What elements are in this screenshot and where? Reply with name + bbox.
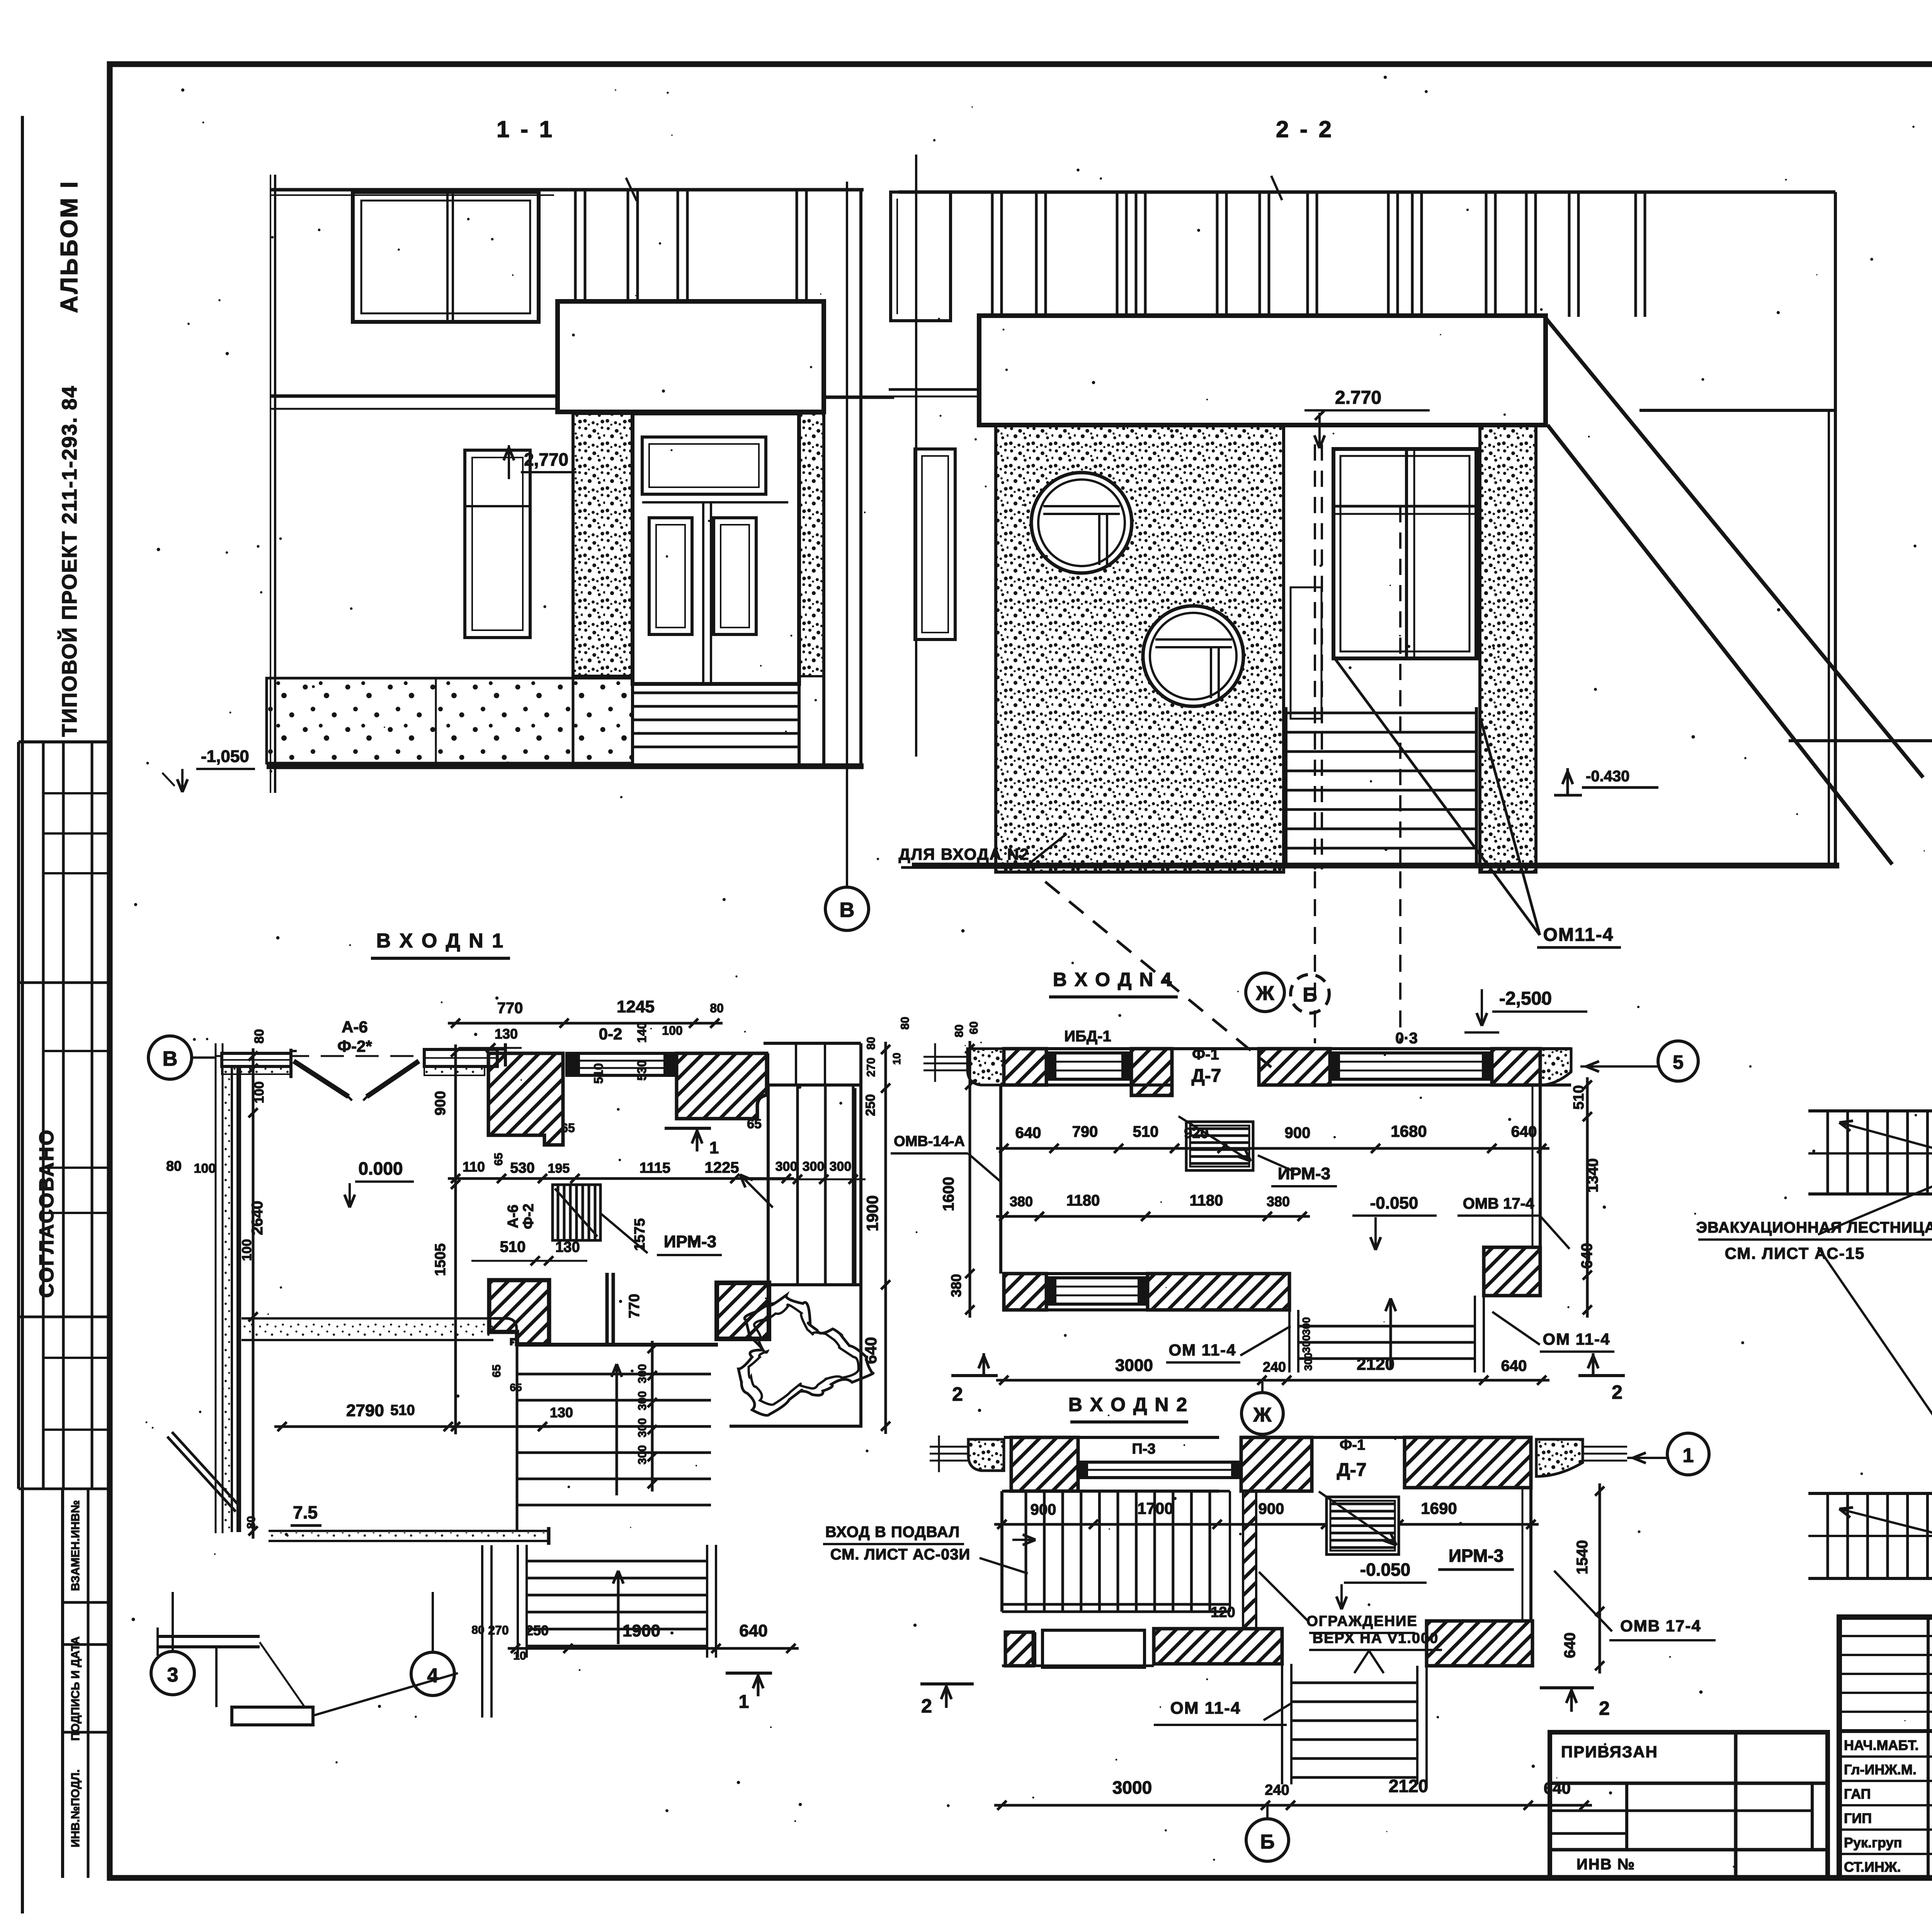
section 2-2 left lower window xyxy=(915,449,955,639)
svg-text:1505: 1505 xyxy=(432,1243,449,1276)
svg-text:ОМВ-14-А: ОМВ-14-А xyxy=(894,1133,965,1150)
svg-text:3000: 3000 xyxy=(1112,1777,1152,1798)
svg-text:80: 80 xyxy=(710,1001,724,1015)
svg-text:1225: 1225 xyxy=(705,1159,739,1176)
svg-text:ВХОД В ПОДВАЛ: ВХОД В ПОДВАЛ xyxy=(825,1524,960,1541)
plan N1 left dims xyxy=(166,1029,267,1539)
plan N1 side stair xyxy=(768,1043,861,1426)
plan N1 dim row middle xyxy=(448,1159,794,1183)
section 2-2 mark -2.500 xyxy=(1464,988,1587,1032)
svg-text:Б: Б xyxy=(1303,984,1317,1006)
svg-text:1 - 1: 1 - 1 xyxy=(497,116,554,142)
section 1-1 ground line xyxy=(267,764,864,769)
svg-text:Д-7: Д-7 xyxy=(1337,1460,1367,1480)
svg-text:300: 300 xyxy=(1300,1317,1312,1335)
svg-text:80: 80 xyxy=(953,1024,966,1037)
svg-text:ИНВ.№ПОДЛ.: ИНВ.№ПОДЛ. xyxy=(69,1769,82,1847)
plan N2 section mark 2 right xyxy=(1540,1688,1610,1719)
section 2-2 porthole 1 xyxy=(1031,473,1132,573)
plan N4 evac stair upper xyxy=(1808,1111,1932,1194)
section 2-2 porthole 2 xyxy=(1143,606,1243,706)
svg-text:900: 900 xyxy=(1031,1501,1056,1518)
svg-text:640: 640 xyxy=(1015,1124,1041,1141)
svg-text:В Х О Д N 4: В Х О Д N 4 xyxy=(1053,969,1173,990)
section 1-1 entrance door frame xyxy=(633,413,799,684)
plan N4 label ОМВ 14-А xyxy=(891,1133,1002,1182)
svg-text:В Х О Д N 1: В Х О Д N 1 xyxy=(376,930,505,952)
section 2-2 entrance steps xyxy=(1286,707,1476,866)
svg-text:770: 770 xyxy=(497,1000,523,1017)
plan N1 lawn cloud box xyxy=(730,1425,862,1428)
plan N2 label ОМ 11-4 xyxy=(1154,1699,1291,1725)
plan N4 label ИРМ-3 xyxy=(1258,1155,1337,1186)
svg-text:-2,500: -2,500 xyxy=(1499,988,1552,1009)
svg-text:1245: 1245 xyxy=(617,997,655,1016)
stamp АЛЬБОМ I xyxy=(56,180,83,313)
section 2-2 right wall edge xyxy=(1829,192,1835,866)
plan N1 top dims xyxy=(448,997,724,1084)
plan N1 inner stair xyxy=(517,1341,711,1531)
svg-text:ТИПОВОЙ ПРОЕКТ 211-1-293. 84: ТИПОВОЙ ПРОЕКТ 211-1-293. 84 xyxy=(58,385,81,737)
svg-text:65: 65 xyxy=(492,1153,505,1165)
svg-text:2: 2 xyxy=(1599,1697,1610,1719)
svg-text:100: 100 xyxy=(194,1161,216,1176)
section 2-2 ground line xyxy=(912,863,1839,869)
label ЭВАКУАЦИОННАЯ ЛЕСТНИЦА xyxy=(1696,1138,1932,1518)
plan N1 vert dims col xyxy=(432,1044,648,1434)
plan N2 right hatch block xyxy=(1427,1621,1532,1666)
svg-text:ОМ 11-4: ОМ 11-4 xyxy=(1170,1699,1241,1718)
svg-text:1180: 1180 xyxy=(1190,1192,1223,1209)
plan N2 right vert dims xyxy=(1561,1483,1604,1673)
svg-text:ДЛЯ ВХОДА N2: ДЛЯ ВХОДА N2 xyxy=(899,845,1030,863)
stamp ТИПОВОЙ ПРОЕКТ 211-1-293.84 xyxy=(58,385,81,737)
svg-text:130: 130 xyxy=(550,1405,573,1420)
svg-text:Ж: Ж xyxy=(1256,982,1275,1005)
svg-text:65: 65 xyxy=(510,1381,522,1393)
plan N2 section mark 2 left xyxy=(920,1684,974,1717)
section 2-2 top floor line xyxy=(898,190,1835,194)
plan N1 section mark 1-1 bottom xyxy=(726,1673,772,1712)
svg-text:-0.430: -0.430 xyxy=(1586,768,1629,785)
section 1-1 door leaf left xyxy=(649,518,692,634)
plan N4 left vert dims xyxy=(940,1021,980,1318)
section 2-2 mark -0.430 xyxy=(1554,768,1658,795)
plan N2 top wall stipple corner xyxy=(968,1439,1004,1471)
plan N1 stair dim 300s xyxy=(740,1159,866,1207)
svg-text:ОМВ 17-4: ОМВ 17-4 xyxy=(1463,1195,1534,1212)
plan N4 bottom wall lines xyxy=(1004,1274,1289,1310)
plan N1 room bottom-right wall xyxy=(517,1273,718,1345)
axis circle В left xyxy=(148,1036,216,1079)
svg-text:110: 110 xyxy=(463,1159,485,1175)
section 1-1 stippled pier xyxy=(573,413,633,676)
svg-text:В Х О Д N 2: В Х О Д N 2 xyxy=(1068,1394,1188,1415)
svg-text:-1,050: -1,050 xyxy=(201,747,249,766)
plan N4 ramp ИРМ-3 xyxy=(1179,1116,1253,1170)
svg-text:0·3: 0·3 xyxy=(1395,1030,1418,1047)
plan N4 label ОМВ 17-4 xyxy=(1458,1195,1570,1249)
svg-text:1700: 1700 xyxy=(1137,1499,1173,1517)
section 2-2 mark 2.770 xyxy=(1304,388,1430,448)
svg-text:СМ. ЛИСТ АС-03И: СМ. ЛИСТ АС-03И xyxy=(830,1546,971,1563)
svg-text:380: 380 xyxy=(948,1274,964,1297)
axis circle Ж lower xyxy=(1242,1382,1283,1434)
svg-text:140: 140 xyxy=(635,1022,649,1043)
svg-text:Рук.груп: Рук.груп xyxy=(1844,1835,1902,1850)
svg-text:510: 510 xyxy=(592,1063,605,1083)
section 1-1 door leaf right xyxy=(714,518,756,634)
svg-text:510: 510 xyxy=(1133,1123,1159,1140)
svg-text:2: 2 xyxy=(1612,1381,1622,1403)
svg-text:ОГРАЖДЕНИЕ: ОГРАЖДЕНИЕ xyxy=(1306,1613,1417,1629)
svg-text:250: 250 xyxy=(863,1094,878,1116)
axis circle 3 xyxy=(151,1592,194,1695)
svg-text:Д-7: Д-7 xyxy=(1192,1066,1221,1086)
plan N1 door leaves А-6 xyxy=(294,1061,419,1100)
plan N1 top-left window Ф-2 xyxy=(222,1049,297,1078)
plan N1 title xyxy=(371,930,510,958)
svg-text:10: 10 xyxy=(513,1650,526,1662)
svg-text:СТ.ИНЖ.: СТ.ИНЖ. xyxy=(1844,1859,1901,1875)
plan N2 window П-3 xyxy=(1078,1441,1241,1478)
label ВЗАМЕН.ИНВ№ xyxy=(69,1500,82,1591)
svg-text:900: 900 xyxy=(1285,1124,1311,1141)
title block signature rows xyxy=(1844,1736,1932,1875)
svg-text:3: 3 xyxy=(167,1664,179,1686)
plan N4 bottom wall hatch 1 xyxy=(1004,1274,1046,1310)
svg-text:ОМ11-4: ОМ11-4 xyxy=(1543,925,1614,945)
section 2-2 break mark xyxy=(1271,176,1282,200)
section 1-1 mark 2.770 xyxy=(504,445,577,479)
svg-text:10: 10 xyxy=(891,1053,903,1065)
svg-text:ИБД-1: ИБД-1 xyxy=(1064,1028,1111,1045)
svg-text:640: 640 xyxy=(1501,1357,1527,1374)
section 1-1 window mullions xyxy=(575,190,806,301)
title block grid xyxy=(1839,1617,1932,1878)
svg-text:2: 2 xyxy=(921,1695,932,1717)
svg-text:640: 640 xyxy=(739,1621,767,1640)
axis circle Б upper xyxy=(1291,975,1329,1013)
plan N1 hatched wall stub xyxy=(489,1280,549,1344)
plan N4 step dims 300 xyxy=(1300,1317,1314,1371)
section 2-2 window mullions xyxy=(992,192,1645,317)
plan N2 top wall lines xyxy=(1004,1437,1531,1491)
svg-text:2,770: 2,770 xyxy=(524,449,568,469)
plan N1 left wall xyxy=(216,1043,239,1533)
plan N1 bottom stair xyxy=(518,1545,716,1658)
svg-text:195: 195 xyxy=(548,1161,570,1176)
svg-text:80: 80 xyxy=(166,1158,182,1174)
plan N1 label А-6 Ф-2 inner xyxy=(505,1204,537,1229)
plan N1 hatched block at lawn xyxy=(717,1283,769,1339)
label ВХОД В ПОДВАЛ xyxy=(823,1524,1036,1573)
section 2-2 left slab lines xyxy=(889,389,979,396)
svg-text:5: 5 xyxy=(1673,1051,1684,1073)
section 1-1 axis В line xyxy=(846,182,848,887)
svg-text:1: 1 xyxy=(739,1692,749,1712)
svg-text:А-6: А-6 xyxy=(505,1204,521,1228)
section 1-1 right wall edge xyxy=(824,190,861,767)
axis circle 4 xyxy=(411,1592,454,1696)
plan N4 evac stair lower xyxy=(1808,1493,1932,1578)
svg-text:4: 4 xyxy=(427,1665,439,1687)
plan N2 entrance steps xyxy=(1282,1651,1427,1784)
section 2-2 right stippled pier xyxy=(1480,425,1536,872)
section 1-1 title xyxy=(497,116,554,142)
plan N2 mark -0.050 xyxy=(1337,1560,1427,1609)
axis circle 5 xyxy=(1580,1041,1698,1081)
section 2-2 title xyxy=(1276,116,1334,142)
axis circle Ж upper xyxy=(1246,973,1284,1012)
svg-text:80: 80 xyxy=(252,1029,267,1044)
svg-text:СМ. ЛИСТ АС-15: СМ. ЛИСТ АС-15 xyxy=(1725,1244,1865,1262)
plan N2 ramp ИРМ-3 xyxy=(1319,1492,1399,1554)
plan N1 right vert dims xyxy=(862,1017,912,1434)
svg-text:1: 1 xyxy=(709,1138,719,1157)
plan N2 right wall xyxy=(1522,1488,1531,1621)
left margin approval table xyxy=(19,742,110,1489)
svg-text:Гл-ИНЖ.М.: Гл-ИНЖ.М. xyxy=(1844,1762,1917,1777)
plan N2 top wall hatch 1 xyxy=(1011,1437,1078,1491)
section 1-1 lower window xyxy=(465,450,530,638)
svg-text:1600: 1600 xyxy=(940,1177,957,1211)
section 1-1 upper window xyxy=(353,192,539,322)
svg-text:ОМ 11-4: ОМ 11-4 xyxy=(1168,1341,1236,1359)
svg-text:900: 900 xyxy=(432,1091,449,1115)
svg-text:ВЗАМЕН.ИНВ№: ВЗАМЕН.ИНВ№ xyxy=(69,1500,82,1591)
plan N4 section mark 2 left xyxy=(951,1353,998,1405)
section 2-2 stair flight diagonal xyxy=(1546,318,1923,864)
svg-text:3000: 3000 xyxy=(1115,1356,1153,1375)
svg-text:240: 240 xyxy=(1265,1782,1289,1798)
svg-text:-0.050: -0.050 xyxy=(1370,1194,1418,1213)
plan N1 small 65 labels xyxy=(490,1117,762,1393)
section 1-1 right stippled band xyxy=(799,413,824,676)
svg-text:130: 130 xyxy=(555,1239,580,1255)
svg-text:ПРИВЯЗАН: ПРИВЯЗАН xyxy=(1561,1743,1658,1761)
left margin inventory table xyxy=(63,1489,110,1878)
svg-text:Ф-2: Ф-2 xyxy=(520,1204,537,1229)
plan N1 bottom dims xyxy=(471,1621,799,1662)
plan N1 mark 0.000 xyxy=(345,1158,414,1207)
svg-text:510: 510 xyxy=(500,1238,526,1255)
section 1-1 slab line xyxy=(270,396,894,409)
label ОГРАЖДЕНИЕ ВЕРХ НА 1.000 xyxy=(1259,1572,1442,1650)
plan N2 label Ф-1 Д-7 xyxy=(1337,1437,1367,1480)
svg-text:2 - 2: 2 - 2 xyxy=(1276,116,1334,142)
plan N4 right wall xyxy=(1532,1085,1540,1247)
plan N1 lower-left retaining walls xyxy=(158,1432,492,1725)
svg-text:270: 270 xyxy=(865,1058,878,1077)
svg-text:1680: 1680 xyxy=(1391,1122,1427,1140)
plan N4 window ИБД-1 xyxy=(1046,1028,1131,1079)
svg-text:2640: 2640 xyxy=(249,1201,266,1235)
section 1-1 top floor line xyxy=(270,190,864,195)
plan N1 section mark 1-1 top xyxy=(665,1128,719,1157)
plan N2 label ОМВ 17-4 xyxy=(1554,1571,1716,1640)
svg-text:530: 530 xyxy=(635,1060,649,1080)
section 2-2 label для входа N2 xyxy=(899,834,1066,867)
label ПРИВЯЗАН xyxy=(1561,1743,1658,1761)
plan N2 title xyxy=(1068,1394,1188,1422)
plan N4 section mark 2 right xyxy=(1578,1353,1625,1403)
plan N4 top wall hatch 3 xyxy=(1259,1049,1330,1085)
section 2-2 glazed door xyxy=(1333,449,1476,658)
svg-text:65: 65 xyxy=(561,1121,575,1135)
svg-text:640: 640 xyxy=(862,1337,880,1364)
svg-text:2: 2 xyxy=(952,1383,963,1405)
svg-text:300: 300 xyxy=(803,1159,825,1174)
svg-text:7.5: 7.5 xyxy=(293,1502,318,1522)
plan N4 top wall stipple corner xyxy=(968,1049,1004,1085)
section 1-1 pavement xyxy=(267,678,573,763)
section 1-1 door transom xyxy=(642,437,766,494)
plan N1 bottom wall xyxy=(269,1527,549,1545)
svg-text:100: 100 xyxy=(662,1024,682,1037)
plan N4 label Ф-1 Д-7 xyxy=(1192,1046,1221,1086)
plan N1 ramp ИРМ-3 xyxy=(553,1185,648,1253)
svg-text:1690: 1690 xyxy=(1421,1499,1457,1517)
svg-text:300: 300 xyxy=(636,1364,649,1383)
svg-text:1900: 1900 xyxy=(863,1195,881,1231)
svg-text:Ж: Ж xyxy=(1253,1404,1272,1426)
svg-text:300: 300 xyxy=(636,1391,649,1410)
plan N4 entrance steps xyxy=(1289,1296,1484,1372)
section 2-2 trench dashed zigzag xyxy=(1045,882,1271,1067)
svg-text:60: 60 xyxy=(968,1021,980,1034)
plan N1 grid line В xyxy=(216,1055,425,1057)
plan N1 room bottom wall xyxy=(241,1318,517,1345)
section 2-2 right landing lines xyxy=(1639,410,1932,741)
svg-text:1575: 1575 xyxy=(632,1218,648,1251)
label ПОДПИСЬ И ДАТА xyxy=(69,1636,82,1741)
plan N4 mark -0.050 xyxy=(1352,1194,1437,1250)
axis circle В below 1-1 xyxy=(825,838,869,930)
plan N1 hatched pier 1 xyxy=(488,1053,563,1145)
svg-text:1115: 1115 xyxy=(639,1160,670,1176)
svg-text:380: 380 xyxy=(1267,1194,1290,1209)
svg-text:В: В xyxy=(163,1047,178,1070)
plan N4 bottom wall hatch 2 xyxy=(1148,1274,1289,1310)
svg-text:120: 120 xyxy=(1211,1604,1235,1621)
plan N2 dim 120 xyxy=(1211,1600,1254,1621)
svg-text:Б: Б xyxy=(1260,1831,1274,1853)
plan N2 basement stair xyxy=(1002,1491,1230,1612)
axis circle Б lower xyxy=(1246,1805,1289,1861)
plan N4 bottom window xyxy=(1046,1278,1148,1304)
plan N2 top wall left connection xyxy=(930,1435,968,1472)
section 1-1 left axis line xyxy=(270,175,275,793)
section 1-1 mark -1.050 xyxy=(162,747,255,792)
svg-text:920: 920 xyxy=(1184,1125,1208,1141)
svg-text:А-6: А-6 xyxy=(342,1018,368,1036)
plan N4 dim row 1 xyxy=(996,1122,1549,1153)
svg-text:СОГЛАСОВАНО: СОГЛАСОВАНО xyxy=(36,1129,58,1298)
svg-text:ИНВ №: ИНВ № xyxy=(1577,1856,1635,1873)
plan N4 dim row 2 xyxy=(996,1192,1310,1221)
outer left trim line xyxy=(21,116,24,1913)
section 2-2 axis dashed drops xyxy=(1315,871,1400,1043)
svg-text:510: 510 xyxy=(390,1402,415,1418)
svg-text:0-2: 0-2 xyxy=(599,1025,622,1043)
svg-text:1180: 1180 xyxy=(1066,1192,1100,1209)
svg-text:790: 790 xyxy=(1072,1123,1098,1140)
svg-text:300: 300 xyxy=(1302,1353,1314,1371)
plan N4 top wall stipple corner right xyxy=(1540,1049,1571,1085)
svg-text:НАЧ.МАБТ.: НАЧ.МАБТ. xyxy=(1844,1737,1918,1753)
svg-text:900: 900 xyxy=(1259,1500,1284,1517)
plan N2 top wall right connection xyxy=(1583,1447,1627,1461)
svg-text:250: 250 xyxy=(526,1622,549,1638)
label ИНВ.№ПОДЛ. xyxy=(69,1769,82,1847)
svg-text:2120: 2120 xyxy=(1357,1355,1395,1374)
svg-text:80: 80 xyxy=(899,1017,912,1029)
table ПРИВЯЗАН xyxy=(1550,1732,1828,1878)
plan N2 top wall hatch 2 xyxy=(1241,1437,1312,1491)
svg-text:2120: 2120 xyxy=(1389,1776,1428,1796)
plan N4 right vert dims xyxy=(1571,1077,1601,1318)
svg-text:770: 770 xyxy=(626,1294,643,1318)
svg-text:ИРМ-3: ИРМ-3 xyxy=(1449,1546,1503,1566)
plan N2 partition wall hatched xyxy=(1243,1491,1256,1629)
svg-text:130: 130 xyxy=(495,1026,518,1042)
svg-text:300: 300 xyxy=(636,1445,649,1464)
section 1-1 break mark xyxy=(626,178,637,201)
svg-text:ПОДПИСЬ И ДАТА: ПОДПИСЬ И ДАТА xyxy=(69,1636,82,1741)
plan N2 label ИРМ-3 xyxy=(1438,1546,1514,1570)
plan N2 stair dim row xyxy=(994,1499,1539,1529)
svg-text:380: 380 xyxy=(1010,1194,1033,1209)
section 1-1 canopy xyxy=(558,301,824,412)
plan N4 title xyxy=(1049,969,1178,997)
svg-text:300: 300 xyxy=(830,1159,852,1174)
section 2-2 section cut dashed lines xyxy=(1291,444,1400,869)
svg-text:П-3: П-3 xyxy=(1132,1441,1155,1457)
plan N1 window О-2 xyxy=(567,1053,677,1075)
plan N4 left room walls xyxy=(999,1085,1002,1274)
plan N4 right bottom hatch xyxy=(1484,1247,1540,1296)
svg-text:640: 640 xyxy=(1561,1633,1578,1658)
svg-text:1: 1 xyxy=(1683,1444,1694,1467)
section 2-2 label ОМ11-4 xyxy=(1335,659,1621,947)
plan N1 lawn cloud xyxy=(738,1295,873,1415)
section 2-2 left upper window xyxy=(891,192,951,321)
plan N1 hatched pier 2 xyxy=(677,1053,767,1119)
stamp СОГЛАСОВАНО xyxy=(36,1129,58,1298)
svg-text:2.770: 2.770 xyxy=(1335,388,1381,408)
svg-text:530: 530 xyxy=(510,1160,534,1176)
plan N4 window О-3 xyxy=(1330,1030,1492,1079)
section 1-1 door centre posts xyxy=(642,502,788,684)
label ИНВ № xyxy=(1577,1856,1635,1873)
plan N2 bottom dims xyxy=(994,1776,1592,1810)
svg-text:-0.050: -0.050 xyxy=(1360,1560,1410,1580)
section 2-2 canopy xyxy=(979,316,1546,425)
plan N1 dim 2790 xyxy=(274,1401,573,1431)
svg-text:2790: 2790 xyxy=(346,1401,384,1420)
svg-text:300: 300 xyxy=(636,1418,649,1437)
svg-text:0.000: 0.000 xyxy=(358,1158,403,1179)
svg-text:65: 65 xyxy=(747,1117,762,1131)
svg-text:В: В xyxy=(840,898,855,922)
svg-text:1540: 1540 xyxy=(1574,1540,1591,1575)
svg-text:240: 240 xyxy=(1263,1359,1286,1375)
plan N4 label ОМ 11-4 right xyxy=(1492,1312,1614,1352)
svg-text:Ф-1: Ф-1 xyxy=(1340,1437,1365,1453)
plan N1 porch outline xyxy=(764,1043,861,1085)
plan N4 top wall lines xyxy=(1004,1049,1571,1085)
